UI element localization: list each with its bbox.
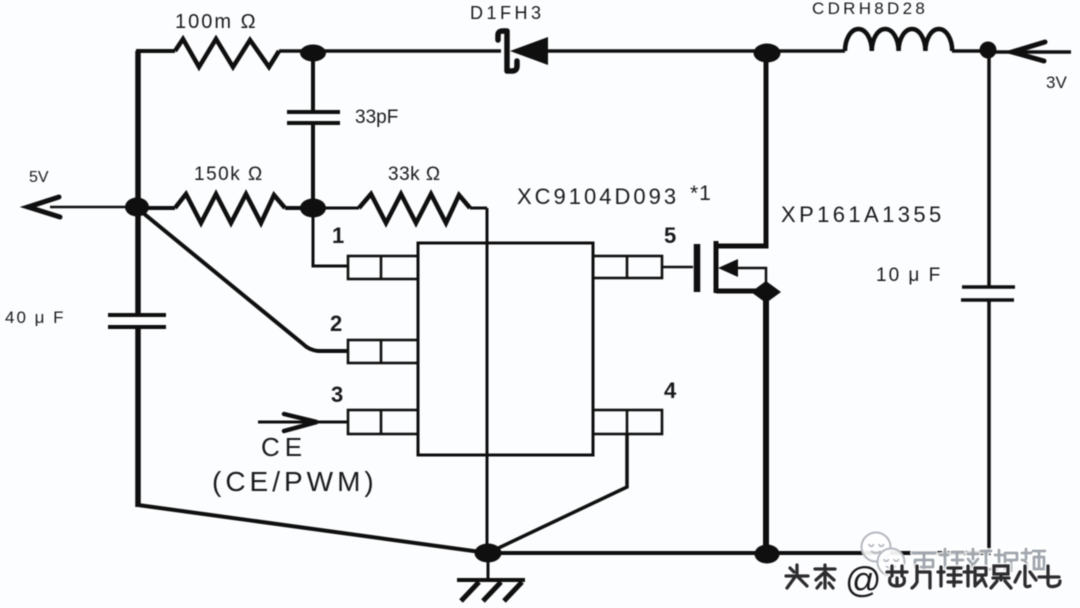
svg-text:40 μ F: 40 μ F bbox=[5, 308, 66, 327]
svg-text:*1: *1 bbox=[690, 182, 712, 205]
svg-text:3: 3 bbox=[331, 382, 343, 407]
capacitor C2 40uF plates bbox=[108, 315, 166, 327]
pin 1 box bbox=[348, 256, 418, 279]
node F (source diamond) bbox=[751, 281, 781, 303]
wire source down to bottom rail bbox=[763, 292, 769, 553]
pin 3 box bbox=[348, 410, 418, 434]
wire CE input line bbox=[258, 421, 348, 424]
svg-text:@: @ bbox=[845, 559, 882, 600]
wire 33pF bottom to node D bbox=[311, 123, 315, 208]
watermark light text 硬件攻城狮 bbox=[913, 549, 1045, 571]
node A (top junction above 33pF) bbox=[300, 45, 326, 62]
node B (switch node at top) bbox=[754, 44, 781, 63]
wire bottom rail bbox=[488, 551, 990, 555]
op-amp U1 XC9104D093 body bbox=[418, 243, 593, 455]
arrow 5V output (open head pointing left) bbox=[28, 197, 60, 217]
wire node A to diode bbox=[313, 49, 501, 53]
wire internal vertical through IC to ground bbox=[486, 208, 489, 553]
svg-text:2: 2 bbox=[330, 311, 342, 336]
wire 150k to node D bbox=[285, 206, 313, 210]
wire node D to 33k resistor bbox=[313, 207, 359, 210]
svg-text:CDRH8D28: CDRH8D28 bbox=[812, 0, 928, 18]
transistor Q1 channel bar bbox=[714, 241, 719, 293]
node E (5V junction on left rail) bbox=[125, 198, 149, 217]
pin 2 box bbox=[348, 340, 418, 363]
svg-text:D1FH3: D1FH3 bbox=[470, 3, 545, 23]
wire 33k to internal vertical bbox=[470, 207, 487, 210]
diode D1FH3 triangle bbox=[510, 37, 548, 65]
wire pin 5 to gate bbox=[662, 266, 693, 269]
arrow 3V (open head pointing left) bbox=[1012, 42, 1045, 61]
capacitor C1 33pF plates bbox=[287, 112, 340, 123]
wire node E to 150k resistor bbox=[137, 206, 175, 210]
resistor R 33k bbox=[359, 194, 470, 223]
pin 4 box bbox=[593, 410, 662, 434]
diode D1FH3 schottky cathode bar bbox=[498, 31, 517, 71]
wire inductor to node C bbox=[952, 49, 984, 53]
svg-text:33k Ω: 33k Ω bbox=[388, 164, 441, 185]
wire node E diagonal to pin 2 bbox=[137, 208, 348, 351]
wire right rail vertical bbox=[987, 50, 991, 555]
arrow CE (open head pointing right) bbox=[284, 414, 317, 431]
node H (bottom junction under MOSFET) bbox=[755, 545, 780, 564]
resistor R 100m ohm bbox=[175, 39, 279, 67]
svg-text:150k Ω: 150k Ω bbox=[194, 164, 264, 185]
transistor Q1 body wire bbox=[736, 268, 766, 292]
transistor Q1 drain branch top bbox=[716, 53, 766, 246]
node D (feedback junction) bbox=[300, 199, 326, 218]
transistor Q1 source branch bottom bbox=[716, 289, 756, 294]
svg-text:CE: CE bbox=[261, 432, 307, 462]
wire left rail diagonal to ground node bbox=[138, 505, 488, 553]
inductor L1 CDRH8D28 bbox=[845, 29, 952, 51]
wire diode to node B bbox=[548, 49, 760, 53]
ground symbol bbox=[457, 553, 525, 601]
node G (ground junction) bbox=[475, 544, 502, 563]
svg-text:3V: 3V bbox=[1046, 73, 1067, 92]
wire pin 4 to ground node bbox=[488, 434, 627, 553]
svg-text:33pF: 33pF bbox=[355, 107, 398, 128]
transistor Q1 body arrow bbox=[718, 259, 738, 277]
wire node B to inductor bbox=[767, 49, 845, 53]
capacitor C3 10uF plates bbox=[961, 287, 1015, 300]
resistor R 150k bbox=[175, 194, 285, 223]
wire 5V line to node E bbox=[50, 206, 130, 209]
svg-text:XP161A1355: XP161A1355 bbox=[781, 202, 945, 227]
svg-text:5V: 5V bbox=[29, 169, 49, 186]
watermark logo circle 1 bbox=[862, 533, 891, 562]
svg-text:5: 5 bbox=[664, 223, 676, 248]
node C (3V input junction) bbox=[980, 42, 997, 59]
wire 33pF top connection bbox=[311, 53, 315, 111]
svg-text:100m Ω: 100m Ω bbox=[175, 11, 258, 33]
svg-text:4: 4 bbox=[664, 378, 677, 403]
wire 3V input line bbox=[995, 50, 1071, 54]
wire left vertical rail bbox=[135, 51, 141, 507]
wire top segment from left rail to resistor bbox=[136, 49, 175, 53]
pin 5 box bbox=[593, 256, 662, 278]
wire resistor to node A bbox=[279, 49, 313, 53]
svg-text:XC9104D093: XC9104D093 bbox=[517, 184, 679, 209]
wire pin1 connection from node D bbox=[313, 208, 348, 266]
svg-text:(CE/PWM): (CE/PWM) bbox=[212, 466, 378, 497]
watermark logo circle 2 bbox=[878, 549, 905, 576]
svg-text:10 μ F: 10 μ F bbox=[876, 265, 942, 286]
watermark dark text 头条 at-sign 芯片情报员小七 bbox=[786, 565, 1060, 588]
transistor Q1 gate bar bbox=[694, 244, 701, 292]
svg-text:1: 1 bbox=[332, 223, 344, 248]
